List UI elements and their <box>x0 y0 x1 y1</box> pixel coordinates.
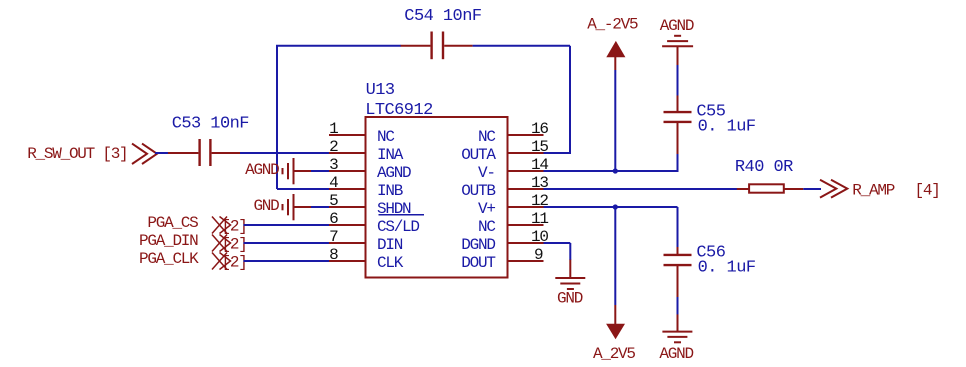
wire R40 to output port <box>803 188 821 190</box>
junction dot at A_-2V5 / pin 14 <box>613 168 618 173</box>
svg-text:CLK: CLK <box>377 254 404 272</box>
wire A_-2V5 down to pin 14 net <box>614 70 616 171</box>
wire C55 to pin 14 net <box>677 154 679 172</box>
wire pin 10 to GND <box>544 242 571 244</box>
pin 2 (INA) <box>329 138 404 164</box>
svg-text:7: 7 <box>329 228 338 246</box>
ground AGND top right <box>660 17 694 65</box>
svg-text:INA: INA <box>377 146 404 164</box>
pin 4 (INB) <box>329 174 403 200</box>
svg-text:DOUT: DOUT <box>461 254 495 272</box>
capacitor C56 <box>664 247 692 297</box>
pin 14 (V-) <box>478 156 548 182</box>
svg-text:4: 4 <box>329 174 338 192</box>
pin 10 (DGND) <box>461 228 548 254</box>
port PGA_CS [2] <box>147 214 246 236</box>
pin 16 (NC) <box>478 120 548 146</box>
pin 5 (SHDN, active low underline) <box>329 192 424 218</box>
wire AGND to pin 3 <box>311 170 329 172</box>
svg-text:DIN: DIN <box>377 236 403 254</box>
svg-text:[2]: [2] <box>222 254 247 272</box>
svg-text:R_AMP: R_AMP <box>852 182 894 200</box>
wire PGA_CS to pin 6 <box>244 224 330 226</box>
pin 7 (DIN) <box>329 228 403 254</box>
svg-text:[2]: [2] <box>222 218 247 236</box>
svg-text:LTC6912: LTC6912 <box>365 101 433 120</box>
wire PGA_DIN to pin 7 <box>244 242 330 244</box>
svg-text:V+: V+ <box>478 200 495 218</box>
svg-text:NC: NC <box>478 218 495 236</box>
svg-text:8: 8 <box>329 246 338 264</box>
wire pin 14 to C55 <box>544 170 678 172</box>
svg-text:V-: V- <box>478 164 495 182</box>
wire top left to C54 <box>276 45 401 47</box>
svg-text:5: 5 <box>329 192 338 210</box>
port R_SW_OUT [3] <box>27 144 157 164</box>
svg-text:A_2V5: A_2V5 <box>593 345 635 363</box>
wire GND to pin 5 <box>311 206 329 208</box>
op-amp U13 LTC6912 body <box>366 117 508 278</box>
pin 15 (OUTA) <box>461 138 548 164</box>
svg-text:PGA_CLK: PGA_CLK <box>139 250 199 268</box>
svg-text:PGA_CS: PGA_CS <box>147 214 198 232</box>
svg-text:AGND: AGND <box>245 161 279 179</box>
svg-text:R_SW_OUT [3]: R_SW_OUT [3] <box>27 145 127 163</box>
svg-text:AGND: AGND <box>659 345 693 363</box>
svg-text:OUTB: OUTB <box>461 182 495 200</box>
svg-text:2: 2 <box>329 138 338 156</box>
capacitor C54 <box>401 32 473 60</box>
junction dot at A_2V5 / pin 12 <box>613 204 618 209</box>
port PGA_CLK [2] <box>139 250 247 272</box>
ground AGND bottom right <box>659 314 693 363</box>
svg-text:DGND: DGND <box>461 236 495 254</box>
wire R_SW_OUT to C53 <box>155 152 169 154</box>
svg-text:16: 16 <box>531 120 548 138</box>
wire pin 12 net down to C56 <box>677 207 679 247</box>
wire right corner down to pin 15 <box>569 46 571 153</box>
svg-text:AGND: AGND <box>377 164 411 182</box>
svg-text:C54 10nF: C54 10nF <box>404 7 481 26</box>
wire feedback vertical left (to pin 4) <box>276 46 278 189</box>
wire C56 to AGND <box>677 297 679 315</box>
wire pin 15 to corner <box>544 152 572 154</box>
svg-text:11: 11 <box>531 210 548 228</box>
port R_AMP [4] <box>820 180 940 200</box>
pin 11 (NC) <box>478 210 548 236</box>
svg-text:1: 1 <box>329 120 338 138</box>
pin 1 (NC) <box>329 120 394 146</box>
wire feedback horizontal to pin 4 <box>277 188 329 190</box>
pin 6 (CS/LD) <box>329 210 419 236</box>
pin 12 (V+) <box>478 192 548 218</box>
svg-text:NC: NC <box>478 128 495 146</box>
svg-text:6: 6 <box>329 210 338 228</box>
svg-text:AGND: AGND <box>660 17 694 35</box>
svg-text:U13: U13 <box>366 81 395 100</box>
ground GND at pin 5 <box>253 194 311 220</box>
power port A_-2V5 <box>587 16 638 71</box>
wire PGA_CLK to pin 8 <box>244 260 330 262</box>
svg-text:INB: INB <box>377 182 403 200</box>
capacitor C53 <box>168 139 240 166</box>
pin 9 (DOUT) <box>461 246 543 272</box>
power port A_2V5 <box>593 305 635 363</box>
wire pin 12 to C56 <box>544 206 678 208</box>
svg-text:[4]: [4] <box>915 182 940 200</box>
svg-text:R40 0R: R40 0R <box>735 158 793 177</box>
wire C53 to pin 2 <box>240 152 329 154</box>
wire pin 10 corner down <box>569 243 571 260</box>
pin 8 (CLK) <box>329 246 404 272</box>
resistor R40 <box>737 184 804 192</box>
svg-text:9: 9 <box>534 246 543 264</box>
wire A_2V5 stem <box>614 207 616 305</box>
svg-text:3: 3 <box>329 156 338 174</box>
svg-text:OUTA: OUTA <box>461 146 496 164</box>
svg-text:GND: GND <box>557 290 583 308</box>
wire pin 13 to R40 <box>544 188 738 190</box>
wire C54 to right corner <box>473 45 570 47</box>
svg-text:0. 1uF: 0. 1uF <box>698 259 756 278</box>
pin 13 (OUTB) <box>461 174 548 200</box>
svg-text:C53 10nF: C53 10nF <box>172 115 249 134</box>
svg-text:PGA_DIN: PGA_DIN <box>139 232 198 250</box>
ground AGND at pin 3 <box>245 158 311 184</box>
svg-text:CS/LD: CS/LD <box>377 218 419 236</box>
svg-text:0. 1uF: 0. 1uF <box>698 118 756 137</box>
capacitor C55 <box>664 96 692 155</box>
svg-text:NC: NC <box>377 128 394 146</box>
svg-text:GND: GND <box>253 197 279 215</box>
port PGA_DIN [2] <box>139 232 247 254</box>
pin 3 (AGND) <box>329 156 411 182</box>
svg-text:A_-2V5: A_-2V5 <box>587 16 638 34</box>
svg-text:[2]: [2] <box>222 236 247 254</box>
ground GND below pin 10 <box>555 260 585 308</box>
wire AGND to C55 <box>677 65 679 96</box>
